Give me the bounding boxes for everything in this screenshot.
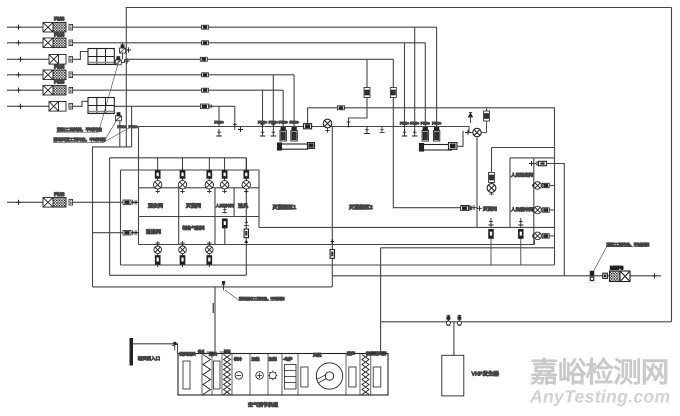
supply valve 人员缓冲间 xyxy=(205,158,213,193)
line break mark xyxy=(212,303,214,313)
AHU outlet rect xyxy=(373,367,381,387)
inlet damper xyxy=(172,342,178,351)
row6 end turn with damper xyxy=(233,106,243,132)
node inlet row5 xyxy=(16,88,21,93)
svg-text:洁具: 洁具 xyxy=(238,203,248,210)
node inlet row3 xyxy=(18,57,23,62)
svg-text:空气调节机组: 空气调节机组 xyxy=(248,402,278,409)
wire row1 xyxy=(7,26,43,28)
wire row2 xyxy=(7,42,43,44)
wire VHP drop xyxy=(453,322,455,356)
svg-text:人员退出间: 人员退出间 xyxy=(511,173,534,178)
drop x491 xyxy=(488,218,493,265)
wire top header xyxy=(126,7,672,9)
valve VHP a xyxy=(446,315,450,325)
wire supply header xyxy=(110,157,247,159)
label 消毒循环工况 with leader xyxy=(225,290,285,301)
supply valve 灭菌间 xyxy=(178,158,186,193)
filter FM8 row7 xyxy=(43,192,73,207)
filter row3 xyxy=(49,55,73,65)
svg-text:VHP发生器: VHP发生器 xyxy=(472,371,500,378)
svg-text:FM8: FM8 xyxy=(54,80,64,86)
wire AHU return drop x215 xyxy=(214,287,216,354)
filter FM8 row5 xyxy=(43,80,73,95)
svg-text:PD8+: PD8+ xyxy=(421,121,430,125)
svg-text:PD8+: PD8+ xyxy=(290,120,299,124)
svg-text:FM8: FM8 xyxy=(54,64,64,70)
supply drop into 灭菌间2 xyxy=(487,148,496,196)
supply valve 更衣间 xyxy=(154,158,162,193)
CD8 inlet 淋浴间 xyxy=(93,230,139,235)
AHU M8 zigzag xyxy=(224,355,231,395)
label 灭菌间2 xyxy=(477,206,497,212)
svg-text:灭菌间: 灭菌间 xyxy=(483,207,497,212)
exhaust box xyxy=(603,273,608,278)
manifold station 1 xyxy=(278,143,315,150)
svg-text:PD8+: PD8+ xyxy=(118,125,127,129)
svg-text:制备气瓶间: 制备气瓶间 xyxy=(183,226,206,231)
rooms top xyxy=(510,157,555,159)
supply valve 洁具b riser xyxy=(242,158,250,193)
svg-text:PD8+: PD8+ xyxy=(400,121,409,125)
wire line C exhaust xyxy=(93,286,333,288)
node inlet row4 xyxy=(16,72,21,77)
svg-text:FM8: FM8 xyxy=(54,192,64,198)
CD8 connector to 灭菌间2 xyxy=(461,205,477,210)
branch x414.7 from row1 xyxy=(410,27,419,136)
fresh air louver xyxy=(130,338,134,366)
svg-text:风机: 风机 xyxy=(313,353,322,358)
filter FM8 row2 xyxy=(43,32,73,47)
branch x262.5 from row5 xyxy=(258,90,267,136)
cartridge injector 1a (row5 end) xyxy=(279,90,288,141)
wire V6 divider xyxy=(331,127,333,287)
svg-text:PD8+: PD8+ xyxy=(215,120,224,124)
damper on line C xyxy=(222,281,226,290)
svg-text:淋浴间: 淋浴间 xyxy=(146,229,161,236)
room walls xyxy=(179,188,234,245)
svg-text:PD8+: PD8+ xyxy=(279,120,288,124)
wire collect corner xyxy=(93,147,132,287)
svg-text:清扫工况开启，平时关闭: 清扫工况开启，平时关闭 xyxy=(607,242,650,247)
grille row1 人员退出间 xyxy=(529,161,564,276)
wire row4 xyxy=(7,74,43,76)
damper D2 (grid1 outlet) xyxy=(115,57,129,65)
grille row4 xyxy=(532,232,554,244)
AHU cooling coil circle xyxy=(235,372,243,380)
wire row3 xyxy=(7,58,49,60)
label 清扫工况开启 with leader xyxy=(592,242,649,274)
洁具 riser under-floor check xyxy=(244,218,249,243)
wall x510 xyxy=(509,158,511,228)
AHU section1 inner xyxy=(183,361,190,389)
manifold station 2 xyxy=(420,143,458,151)
wire bus left leg V3 xyxy=(138,127,140,245)
inner box bottom xyxy=(491,227,493,247)
svg-text:-电炉: -电炉 xyxy=(283,357,292,362)
wire manifold2 to valve xyxy=(457,131,463,146)
flow box to upper duct xyxy=(484,108,490,121)
svg-text:加湿: 加湿 xyxy=(269,357,277,362)
svg-text:灭菌间: 灭菌间 xyxy=(186,203,201,210)
damper D3 (grid2 outlet) xyxy=(116,113,122,121)
svg-text:消声: 消声 xyxy=(347,351,355,356)
heater grid box 2 xyxy=(88,98,114,114)
filter FM8 row1 xyxy=(43,17,73,33)
AHU humidifier glyph xyxy=(268,371,277,381)
wall 灭菌间2 left xyxy=(476,138,478,228)
wire line y247.8 xyxy=(381,247,555,249)
circulation fan on bus xyxy=(323,119,332,133)
grille row2 xyxy=(532,182,554,190)
svg-text:更衣间: 更衣间 xyxy=(148,203,163,210)
svg-text:AnyTesting.com: AnyTesting.com xyxy=(529,387,670,407)
wire V2 xyxy=(131,106,133,147)
wire row7 supply xyxy=(7,201,43,203)
svg-text:嘉峪检测网: 嘉峪检测网 xyxy=(530,357,669,389)
rooms top row xyxy=(139,187,260,189)
exhaust valve 制备气瓶间 xyxy=(179,241,187,267)
node exhaust outlet xyxy=(652,273,657,278)
exhaust valve bottom3 xyxy=(206,241,214,267)
room outer box xyxy=(121,170,260,227)
label 清扫工况 xyxy=(56,57,120,132)
wire row6 xyxy=(7,105,49,107)
AHU HEPA zigzag xyxy=(362,355,369,395)
svg-text:表冷: 表冷 xyxy=(234,357,242,362)
drop x520.8 xyxy=(518,218,523,265)
damper D1 (bypass r2->r3) xyxy=(120,43,132,60)
drop x367 from row3 with HEPA xyxy=(347,59,371,133)
damper box row5 xyxy=(202,88,209,92)
AHU section rect2 xyxy=(214,361,221,389)
cartridge injector 2a (row2 end) xyxy=(421,43,430,141)
wire right edge xyxy=(671,8,673,322)
wire exhaust stems to line A xyxy=(158,264,210,267)
svg-text:回风进风: 回风进风 xyxy=(180,352,196,357)
wire line B right exhaust xyxy=(332,275,661,277)
damper box row3 xyxy=(200,57,207,61)
CD8 connector left of 灭菌间2 xyxy=(461,206,472,211)
filter row6 xyxy=(49,102,73,112)
label 消毒灭菌工况 xyxy=(53,120,131,143)
wire floor 区1区2 xyxy=(259,226,555,228)
AHU silencer rect xyxy=(349,367,356,387)
node inlet row2 xyxy=(16,40,21,45)
grille row3 xyxy=(532,206,554,214)
AHU flex joints xyxy=(207,352,388,354)
AHU dividers xyxy=(202,354,371,396)
check small x382 below bus xyxy=(379,127,384,133)
wire line A xyxy=(121,264,555,266)
svg-text:PD8+: PD8+ xyxy=(269,120,278,124)
connector box bus x307 xyxy=(304,124,312,129)
filter MEF8 xyxy=(610,266,631,282)
inner box top xyxy=(492,147,555,149)
svg-text:MEF8: MEF8 xyxy=(610,266,624,272)
valve VHP inject xyxy=(465,120,487,137)
watermark xyxy=(529,357,670,407)
wire V1 xyxy=(119,121,121,147)
wire bus xyxy=(139,126,470,128)
damper box row1 xyxy=(202,25,209,29)
svg-text:G4: G4 xyxy=(198,349,205,354)
damper box CD8 row6 xyxy=(200,104,211,109)
damper box row4 xyxy=(202,73,209,77)
wire riser 洁具 supply xyxy=(245,158,247,275)
exhaust damper xyxy=(590,271,593,282)
wire line B left xyxy=(110,274,247,276)
wire duct supply header drop xyxy=(109,158,111,275)
AHU box xyxy=(178,354,388,396)
cartridge injector 2b (row1 end) xyxy=(432,27,441,141)
wire row5 xyxy=(7,89,43,91)
valve VHP b xyxy=(457,315,461,325)
AHU electric heater box xyxy=(285,365,297,390)
filter FM8 row4 xyxy=(43,64,73,79)
damper box row2 xyxy=(202,41,209,45)
branch x219 from row6 xyxy=(215,106,224,136)
wall right outer xyxy=(554,108,556,265)
svg-text:清扫工况关闭，平时开启: 清扫工况关闭，平时开启 xyxy=(57,127,102,132)
damper box upper duct xyxy=(338,106,345,110)
人员缓冲间 under-floor check xyxy=(222,208,227,245)
check+box on V6 xyxy=(330,239,335,258)
AHU fan xyxy=(301,363,343,389)
wire VHP loop bottom xyxy=(381,321,672,323)
AHU heating coil circle xyxy=(256,372,264,380)
svg-text:消毒循环工况开启，平时关闭: 消毒循环工况开启，平时关闭 xyxy=(239,297,285,301)
heater grid box 1 xyxy=(88,49,114,65)
cartridge injector 1b (row4 end) xyxy=(290,75,299,141)
svg-text:灭菌柜区2: 灭菌柜区2 xyxy=(349,204,373,211)
branch x273.3 from row4 xyxy=(269,75,278,136)
svg-text:灭菌柜区1: 灭菌柜区1 xyxy=(273,204,297,211)
wire AHU supply drop x380.6 xyxy=(380,248,382,354)
exhaust valve 淋浴间 xyxy=(154,241,162,267)
svg-text:FM8: FM8 xyxy=(54,32,64,38)
wire inlet xyxy=(133,344,178,354)
rooms bottom floor long line xyxy=(139,244,535,246)
sensor arrow xyxy=(469,112,473,123)
AHU G4 zigzag xyxy=(203,355,211,395)
svg-text:人员缓冲间: 人员缓冲间 xyxy=(216,203,234,208)
node inlet row6 xyxy=(18,104,23,109)
wall x533.8 xyxy=(533,158,535,245)
node inlet row1 xyxy=(16,25,21,30)
svg-text:加热: 加热 xyxy=(252,357,260,362)
svg-text:PD8+: PD8+ xyxy=(432,121,441,125)
branch x404.5 from row2 xyxy=(400,43,409,136)
supply valve 洁具a xyxy=(220,158,228,193)
svg-text:PD8+: PD8+ xyxy=(410,121,419,125)
svg-text:新风引入口: 新风引入口 xyxy=(138,356,160,361)
wire riser bus to upper duct xyxy=(307,108,309,124)
CD8 inlet 更衣间 xyxy=(123,200,139,205)
svg-text:PD8+: PD8+ xyxy=(258,120,267,124)
VHP box xyxy=(442,355,500,396)
svg-text:人员缓冲间: 人员缓冲间 xyxy=(511,207,534,212)
drop x393.3 row3 end with HEPA, continues to 灭菌间2 line xyxy=(390,59,461,207)
node inlet row7 xyxy=(16,200,21,205)
svg-text:消毒灭菌工况开启，平时关闭: 消毒灭菌工况开启，平时关闭 xyxy=(54,137,106,142)
svg-text:FM8: FM8 xyxy=(54,17,64,23)
wire upper duct line right segment xyxy=(308,107,555,109)
wire V-long from top xyxy=(125,8,127,147)
